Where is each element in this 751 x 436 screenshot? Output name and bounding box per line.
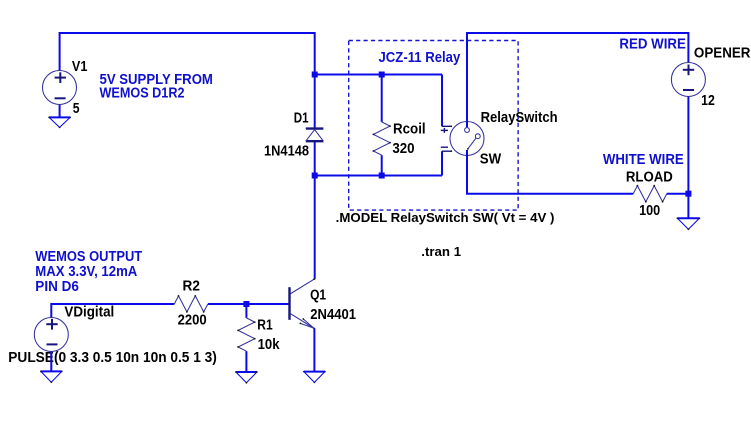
svg-text:RLOAD: RLOAD bbox=[626, 170, 673, 186]
wire R2 to Q1 base bbox=[208, 303, 289, 305]
ground below V1 bbox=[49, 117, 70, 127]
svg-text:SW: SW bbox=[480, 152, 502, 168]
ground right bbox=[677, 218, 699, 229]
svg-text:RelaySwitch: RelaySwitch bbox=[481, 110, 558, 126]
switch SW body bbox=[450, 122, 484, 156]
svg-text:PULSE(0 3.3 0.5 10n 10n 0.5 1: PULSE(0 3.3 0.5 10n 10n 0.5 1 3) bbox=[8, 350, 217, 366]
wire VDigital to ground bbox=[50, 352, 52, 372]
svg-text:WEMOS D1R2: WEMOS D1R2 bbox=[100, 85, 185, 101]
svg-text:VDigital: VDigital bbox=[64, 304, 114, 320]
dashed box JCZ-11 relay bbox=[349, 41, 518, 211]
svg-text:320: 320 bbox=[392, 141, 414, 157]
ground below VDigital bbox=[41, 371, 62, 382]
wire node to R1 bbox=[245, 304, 247, 318]
wire switch top pin to red wire rail bbox=[467, 33, 688, 127]
svg-text:1N4148: 1N4148 bbox=[264, 144, 309, 160]
diode D1 bbox=[306, 129, 324, 142]
wire OPENER bottom to RLOAD node bbox=[687, 97, 689, 194]
wire node to ground right bbox=[687, 194, 689, 219]
svg-text:.tran 1: .tran 1 bbox=[421, 244, 461, 259]
wire top-left net V1 to D1 node bbox=[60, 33, 315, 75]
wire coil bottom rail bbox=[315, 175, 442, 177]
wire coil top rail bbox=[315, 74, 442, 76]
wire VDigital to R2 bbox=[51, 304, 174, 318]
wire collector vertical from D1 bottom node bbox=[314, 176, 316, 280]
ground below Q1 bbox=[304, 372, 325, 383]
svg-text:PIN D6: PIN D6 bbox=[35, 279, 79, 295]
wire Q1 emitter to ground bbox=[313, 329, 315, 372]
svg-text:WHITE WIRE: WHITE WIRE bbox=[603, 152, 684, 168]
svg-text:OPENER: OPENER bbox=[694, 46, 751, 62]
wire V1 to ground bbox=[59, 105, 61, 118]
node junction Rcoil top bbox=[379, 72, 385, 78]
svg-text:10k: 10k bbox=[258, 337, 281, 353]
switch SW control stubs bbox=[441, 126, 452, 151]
wire switch bottom pin to white wire rail bbox=[467, 150, 633, 194]
resistor RLOAD bbox=[633, 186, 667, 202]
svg-text:Q1: Q1 bbox=[310, 288, 326, 304]
resistor R2 bbox=[174, 296, 208, 312]
svg-text:2200: 2200 bbox=[178, 313, 207, 329]
svg-text:5: 5 bbox=[73, 101, 80, 117]
svg-text:R2: R2 bbox=[183, 279, 200, 295]
voltage source V1 bbox=[43, 71, 77, 105]
svg-text:WEMOS OUTPUT: WEMOS OUTPUT bbox=[35, 249, 142, 265]
svg-text:RED WIRE: RED WIRE bbox=[619, 36, 686, 52]
ground below R1 bbox=[236, 372, 257, 383]
node junction top of D1 bbox=[312, 72, 318, 78]
svg-text:2N4401: 2N4401 bbox=[310, 307, 356, 323]
symbol anchor dots bbox=[40, 117, 700, 384]
wire switch control - drop bbox=[441, 151, 443, 175]
svg-text:12: 12 bbox=[701, 93, 715, 109]
transistor Q1 bbox=[290, 279, 315, 328]
svg-text:100: 100 bbox=[639, 203, 660, 219]
voltage source VDigital bbox=[34, 318, 68, 352]
node junction Rcoil bottom bbox=[379, 173, 385, 179]
resistor R1 bbox=[238, 318, 255, 351]
node junction RLOAD right bbox=[685, 191, 691, 197]
node junction R1 top bbox=[243, 301, 249, 307]
svg-text:V1: V1 bbox=[72, 59, 88, 75]
wire R1 to ground bbox=[245, 351, 247, 372]
resistor Rcoil bbox=[381, 75, 383, 122]
svg-text:.MODEL RelaySwitch SW( Vt = 4V: .MODEL RelaySwitch SW( Vt = 4V ) bbox=[336, 210, 555, 225]
wire switch control + drop bbox=[441, 75, 443, 127]
voltage source OPENER bbox=[671, 63, 705, 97]
svg-text:JCZ-11 Relay: JCZ-11 Relay bbox=[379, 50, 461, 66]
svg-text:D1: D1 bbox=[294, 111, 309, 127]
svg-text:Rcoil: Rcoil bbox=[393, 122, 426, 138]
svg-text:R1: R1 bbox=[257, 317, 272, 333]
svg-text:MAX 3.3V, 12mA: MAX 3.3V, 12mA bbox=[35, 264, 137, 280]
node junction bottom of D1 bbox=[312, 173, 318, 179]
wire D1 stubs bbox=[314, 75, 316, 129]
